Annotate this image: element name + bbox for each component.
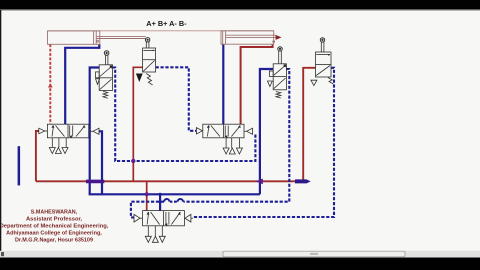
svg-text:Adhiyamaan College of Engineer: Adhiyamaan College of Engineering, — [6, 231, 102, 237]
svg-text:Department of Mechanical Engin: Department of Mechanical Engineering, — [0, 224, 109, 230]
svg-text:Assistant Professor,: Assistant Professor, — [26, 217, 82, 223]
svg-text:Dr.M.G.R.Nagar, Hosur 635109: Dr.M.G.R.Nagar, Hosur 635109 — [15, 238, 93, 244]
svg-text:A+ B+ A- B-: A+ B+ A- B- — [146, 19, 187, 28]
svg-text:S.MAHESWARAN,: S.MAHESWARAN, — [31, 210, 78, 216]
